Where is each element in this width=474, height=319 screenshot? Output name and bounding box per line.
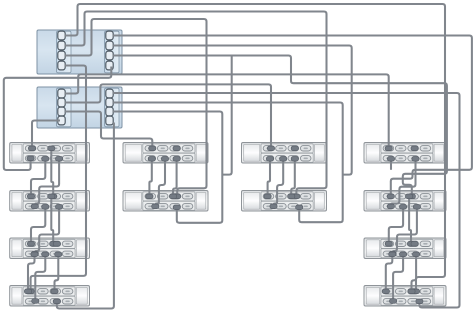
- wire shelf col2 row1 bottom port2 to row2 bottom port1: [155, 159, 165, 207]
- controller 1: [37, 30, 122, 74]
- wire shelf col1 row2 bottom port3 to row3 bottom port1: [35, 207, 59, 254]
- disk shelf col3 row1: [242, 143, 327, 164]
- wire shelf col1 row3 bottom port1 to row4 top port1: [28, 254, 35, 291]
- connectors: [24, 146, 423, 304]
- wire shelf col1 row2 bottom to row3 top port1: [31, 207, 45, 244]
- disk shelf col1 row3: [10, 238, 90, 259]
- wire shelf col4 row2 bottom to row3 top port1: [389, 207, 403, 244]
- wire C1 left HBA port3 to shelf col2 row2 top port3: [65, 19, 207, 196]
- wire shelf col4 row2 bottom port3 to row3 bottom port1: [393, 207, 417, 254]
- wire shelf col1 row3 bottom port2 to row4 bottom port1: [35, 254, 45, 301]
- wire C1 right HBA port3 to shelf col4 row2 top port3: [113, 56, 447, 197]
- disk shelf col3 row2: [242, 191, 327, 212]
- wire C1 right HBA port1 to shelf col4 row2 top port1: [113, 36, 472, 197]
- controller 2: [37, 87, 122, 128]
- wire C2 left HBA port4 to shelf col1 row1 top port1: [32, 121, 60, 149]
- wire C1 left HBA port4 to shelf col1 row4 top port1: [31, 66, 86, 292]
- wire C2 right HBA port4 to shelf col1 row4 bottom port3: [57, 123, 114, 309]
- wire C2 right HBA port2 to shelf col3 row2 bottom port3: [113, 103, 343, 223]
- wire shelf col1 row1 top port3 to row2 top port3: [51, 148, 53, 196]
- wire shelf col1 row1 bottom to row2 top port1: [31, 159, 45, 197]
- wire C1 left HBA port1 to shelf col4 row4 top port3: [65, 4, 445, 291]
- wire shelf col1 row1 bottom port3 to row2 bottom port1: [35, 159, 59, 207]
- wire shelf col2 row1 bottom port3 to row2 top port3: [173, 159, 177, 197]
- wire shelf col1 row2 top port3 to row3 top port3: [51, 196, 53, 244]
- wire shelf col4 row3 bottom port2 to row4 bottom port1: [393, 254, 403, 301]
- wire shelf col4 row3 bottom port1 to row4 top port1: [386, 254, 393, 291]
- wire branch junction col2: [223, 56, 232, 175]
- wire shelf col2 row1 bottom port1 to row2 top port1: [149, 159, 151, 197]
- wire shelf col4 row1 bottom port3 to row2 bottom port1: [391, 159, 416, 207]
- disk shelf col1 row2: [10, 191, 90, 212]
- wire C1 right HBA port4 to shelf col1 row1 bottom port1: [4, 67, 112, 171]
- disk shelf col4 row2: [364, 191, 446, 212]
- wire shelf col3 row1 bottom port3 to row2 top port3: [291, 159, 295, 197]
- disk shelf col2 row2: [123, 191, 208, 212]
- wire shelf col4 row3 bottom port3 to row4 top port3: [412, 254, 417, 291]
- wire shelf col4 row2 top port3 to row3 top port3: [409, 196, 411, 244]
- wire C2 left HBA port1 to shelf col4 row1 top port1: [65, 74, 389, 148]
- wire C2 left HBA port3 to shelf col2 row1 top port1: [65, 112, 152, 149]
- wire shelf col4 row1 bottom port1 stub: [390, 159, 392, 170]
- wire C2 right HBA port1 to shelf col4 row4 bottom port4: [113, 93, 460, 308]
- disk shelf col2 row1: [123, 143, 208, 164]
- wire shelf col3 row1 bottom port1 to row2 top port1: [268, 159, 270, 197]
- wire C2 right HBA port3 to shelf col2 row2 bottom port3: [113, 112, 222, 223]
- disk shelf col4 row4: [364, 286, 446, 307]
- wire shelf col3 row1 bottom port2 to row2 bottom port1: [274, 159, 284, 207]
- disk shelf col4 row1: [364, 143, 446, 164]
- wire C1 left HBA port2 to shelf col3 row2 top port3: [65, 12, 327, 197]
- wire C1 right HBA port2 junction col3: [113, 46, 352, 175]
- disk shelf col4 row3: [364, 238, 446, 259]
- wire shelf col1 row3 bottom port3 to row4 top port3: [55, 254, 59, 291]
- disk shelf col1 row1: [10, 143, 90, 164]
- disk shelf col1 row4: [10, 286, 90, 307]
- wire C2 left HBA port2 to shelf col3 row1 top port1: [65, 84, 271, 148]
